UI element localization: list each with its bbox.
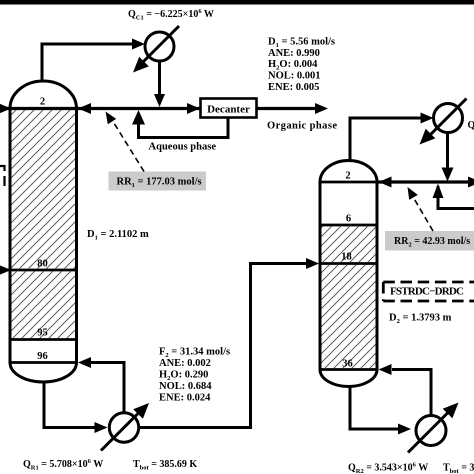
svg-text:18: 18 bbox=[341, 252, 352, 263]
wire C2 overhead vapor bbox=[350, 118, 425, 162]
reboiler E4 heat line bbox=[408, 411, 450, 453]
RR1 annotation box bbox=[109, 172, 207, 191]
wire RR2 dashed pointer bbox=[414, 199, 433, 232]
arrow E2 heat in bbox=[133, 403, 149, 419]
svg-text:RR2 = 42.93 mol/s: RR2 = 42.93 mol/s bbox=[394, 236, 470, 249]
wire C1 bottoms bbox=[44, 381, 96, 428]
svg-text:ENE: 0.005: ENE: 0.005 bbox=[268, 82, 319, 93]
dashed box remnant left edge bbox=[0, 166, 5, 186]
arrow feed2 into C1 bbox=[0, 265, 11, 276]
wire C1 overhead vapor bbox=[42, 44, 136, 81]
reboiler E4 bbox=[416, 416, 446, 446]
column C2 stage lines bbox=[320, 182, 377, 370]
svg-text:ANE: 0.990: ANE: 0.990 bbox=[268, 48, 320, 59]
wire F2 transfer line bbox=[139, 264, 308, 428]
svg-text:ANE: 0.002: ANE: 0.002 bbox=[159, 358, 211, 369]
arrow vapor return into C1 stage 96 bbox=[78, 357, 91, 368]
column C1 packing hatch middle bbox=[12, 272, 76, 339]
svg-text:RR1 = 177.03 mol/s: RR1 = 177.03 mol/s bbox=[117, 177, 202, 190]
svg-text:Aqueous phase: Aqueous phase bbox=[149, 142, 217, 153]
svg-text:NOL: 0.684: NOL: 0.684 bbox=[159, 381, 212, 392]
arrow reflux into C2 bbox=[379, 177, 392, 188]
arrow vapor into condenser E3 bbox=[421, 113, 434, 124]
reboiler E2 heat line bbox=[101, 412, 140, 451]
wire feed2 + stage 80 line bbox=[0, 269, 77, 272]
wire recycle join from right bbox=[438, 186, 474, 209]
svg-text:FSTRDC−DRDC: FSTRDC−DRDC bbox=[390, 286, 464, 298]
arrow feed1 into C1 bbox=[0, 103, 11, 114]
svg-text:Q: Q bbox=[468, 120, 474, 131]
svg-text:95: 95 bbox=[37, 328, 48, 339]
arrow vapor return into C2 stage 36 bbox=[379, 364, 392, 375]
svg-text:6: 6 bbox=[346, 214, 351, 225]
arrow distillate right edge bbox=[468, 177, 474, 188]
arrow into decanter bbox=[187, 103, 200, 114]
arrow E1 heat out bbox=[133, 57, 149, 73]
reboiler E2 bbox=[109, 413, 138, 442]
svg-text:36: 36 bbox=[342, 359, 353, 370]
wire E4 vapor return bbox=[392, 370, 431, 416]
wire feed1 + stage 2 line bbox=[0, 107, 200, 110]
arrow vapor into condenser E1 bbox=[132, 39, 145, 50]
arrow bottoms into reboiler E4 bbox=[398, 424, 411, 435]
svg-text:ENE: 0.024: ENE: 0.024 bbox=[159, 393, 211, 404]
svg-text:96: 96 bbox=[37, 351, 48, 362]
wire aqueous phase recycle bbox=[139, 113, 229, 138]
wire E1 condensate bbox=[158, 61, 161, 96]
arrow RR2 pointer bbox=[408, 187, 418, 200]
column C1 shell bbox=[10, 81, 77, 382]
column C1 stage lines 95 96 bbox=[10, 340, 77, 363]
arrow recycle up into header bbox=[433, 184, 444, 199]
svg-text:Organic phase: Organic phase bbox=[267, 121, 337, 132]
column C2 shell bbox=[320, 161, 377, 387]
arrow F2 into C2 stage 18 bbox=[306, 258, 319, 269]
decanter V1 bbox=[201, 99, 257, 118]
condenser E3 heat line bbox=[430, 99, 467, 136]
dashed label box FSTRDC bbox=[383, 282, 474, 301]
RR2 annotation box bbox=[385, 231, 474, 251]
column C2 packing hatch upper bbox=[322, 227, 376, 263]
arrow aqueous up into reflux line bbox=[132, 110, 145, 125]
svg-text:Tbot = 3: Tbot = 3 bbox=[443, 463, 474, 474]
wire E2 vapor return bbox=[91, 363, 124, 414]
svg-text:2: 2 bbox=[345, 171, 350, 182]
arrow E4 heat in bbox=[443, 403, 459, 419]
wire C2 bottoms bbox=[350, 385, 399, 429]
arrow condensate down bbox=[154, 94, 165, 107]
svg-text:Decanter: Decanter bbox=[207, 103, 250, 115]
top border rule bbox=[0, 0, 474, 5]
wire organic phase out bbox=[257, 107, 317, 110]
svg-text:2: 2 bbox=[40, 97, 45, 108]
arrow reflux1 into C1 bbox=[78, 103, 91, 114]
condenser E1 bbox=[145, 32, 174, 61]
column C2 packing hatch lower bbox=[322, 265, 376, 368]
arrow condensate down C2 bbox=[442, 168, 454, 182]
condenser E1 heat line bbox=[141, 26, 179, 64]
svg-text:NOL: 0.001: NOL: 0.001 bbox=[268, 71, 321, 82]
wire RR1 dashed pointer bbox=[113, 122, 144, 172]
arrow E3 heat out bbox=[420, 129, 436, 145]
column C1 packing hatch top bbox=[12, 110, 76, 269]
condenser E3 bbox=[434, 104, 463, 133]
arrow organic phase bbox=[315, 103, 328, 114]
wire E3 condensate bbox=[446, 133, 449, 171]
wire C2 reflux header bbox=[379, 180, 471, 183]
arrow bottoms into reboiler E2 bbox=[95, 422, 108, 433]
arrow RR1 pointer bbox=[106, 112, 117, 125]
svg-text:80: 80 bbox=[37, 259, 48, 270]
